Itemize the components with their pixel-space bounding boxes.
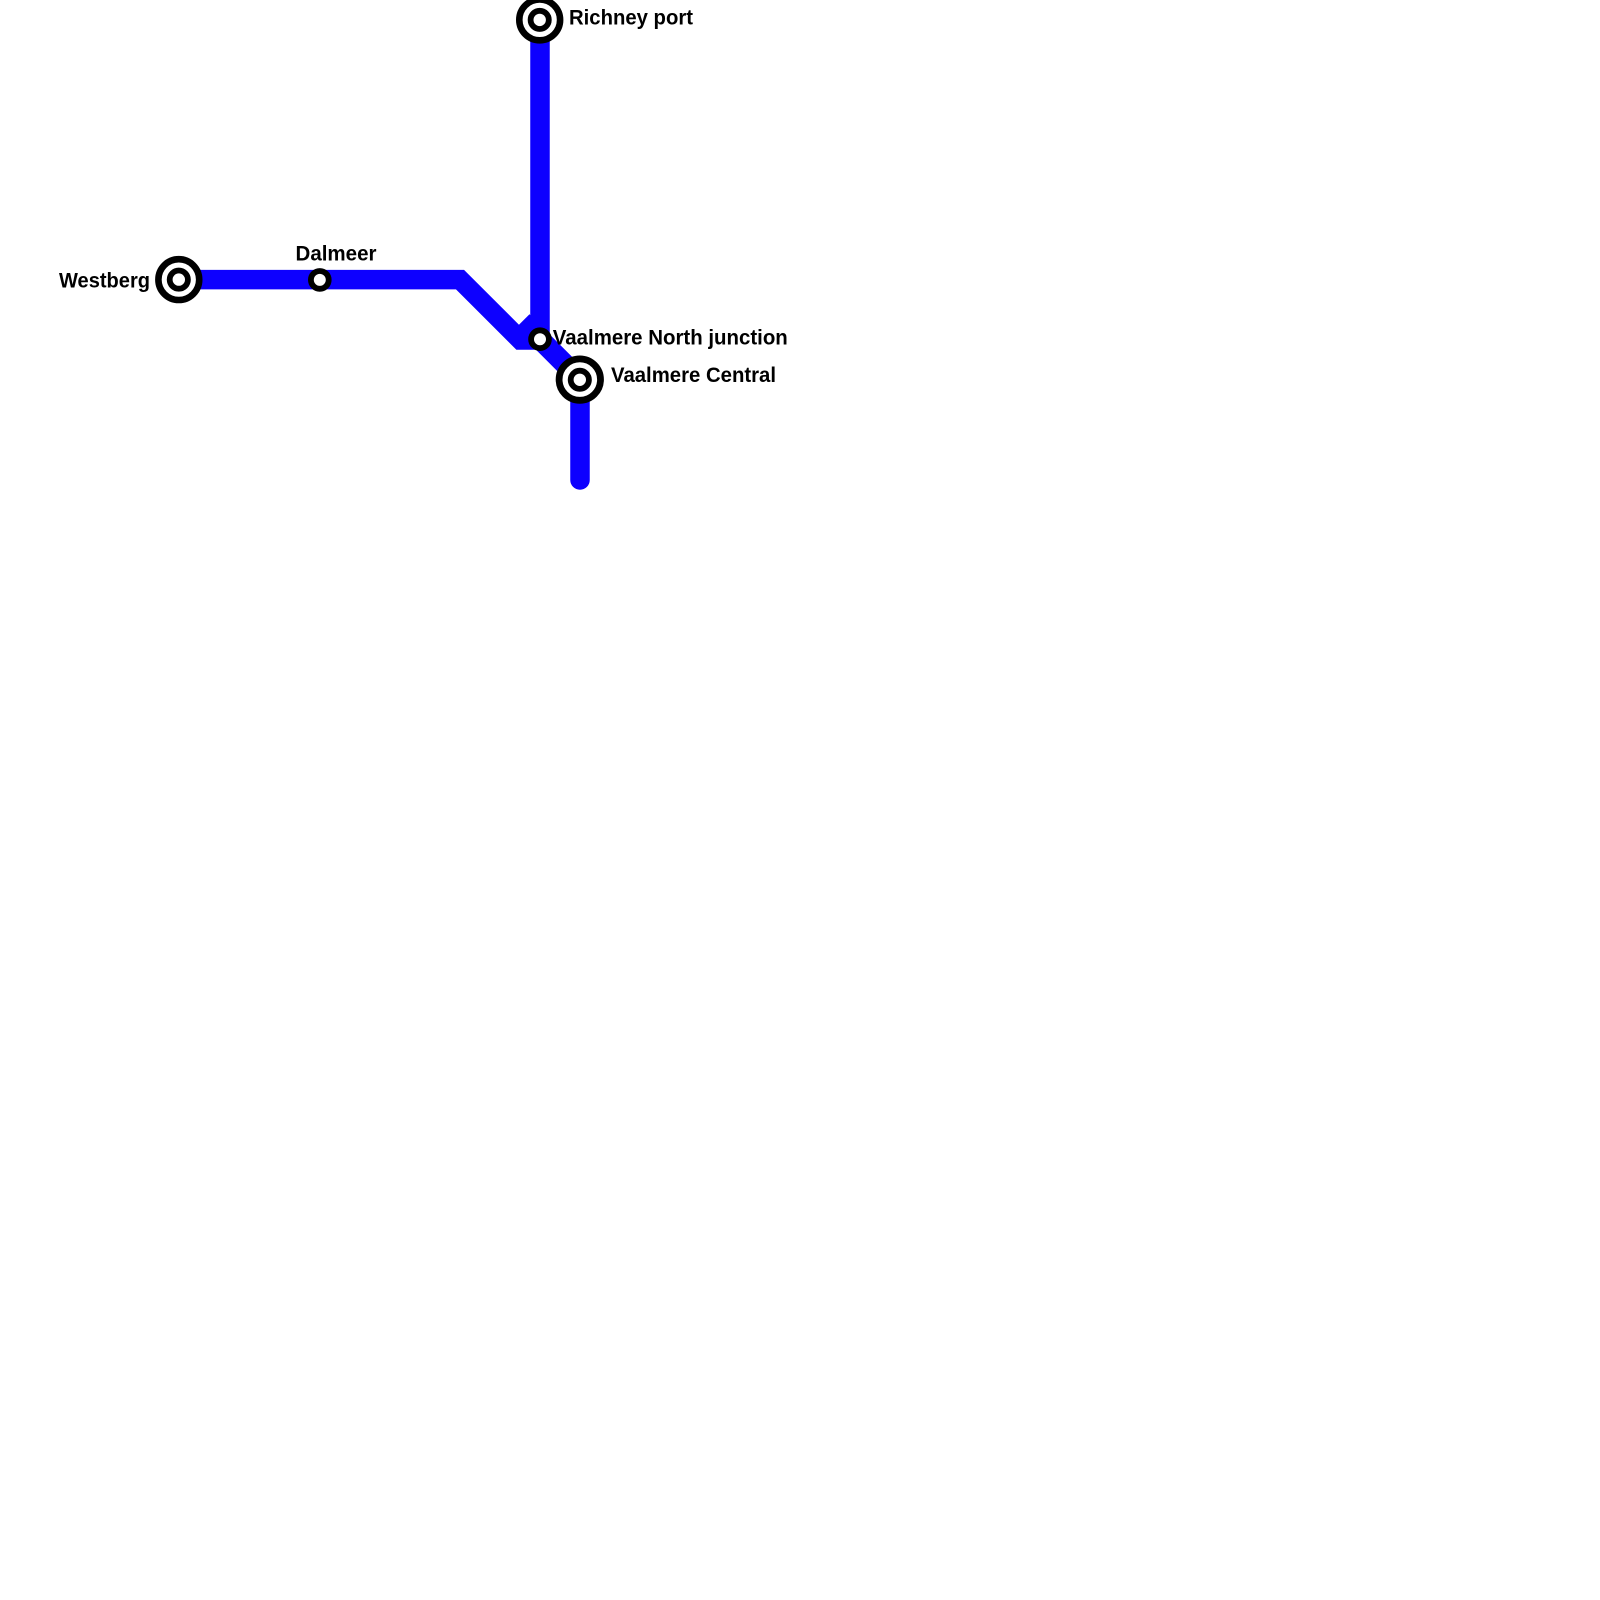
wire: stub below Vaalmere Central (round end) — [570, 379, 590, 481]
svg-text:Vaalmere North junction: Vaalmere North junction — [553, 327, 788, 350]
svg-text:Vaalmere Central: Vaalmere Central — [611, 364, 776, 387]
station Richney port (interchange bullseye) — [519, 0, 560, 40]
station Vaalmere North junction (small stop) — [531, 330, 549, 348]
wire: Westberg line (Westberg - Dalmeer - junction - Vaalmere Central) — [180, 280, 580, 380]
station Dalmeer (small stop) — [311, 271, 329, 289]
svg-text:Dalmeer: Dalmeer — [296, 243, 377, 266]
svg-text:Westberg: Westberg — [59, 269, 150, 292]
station Westberg (interchange bullseye) — [158, 259, 199, 300]
wire: junction diagonal segment to Vaalmere Central — [523, 321, 580, 378]
station Vaalmere Central (interchange bullseye) — [559, 359, 600, 400]
svg-text:Richney port: Richney port — [569, 7, 693, 30]
wire: Richney port vertical segment — [530, 18, 550, 338]
